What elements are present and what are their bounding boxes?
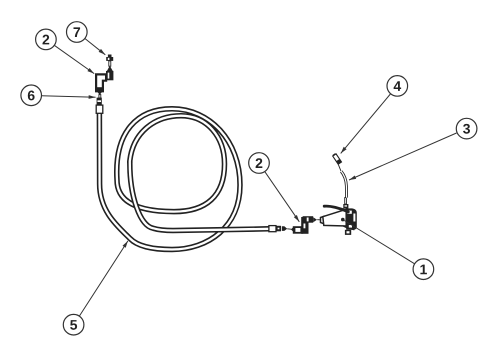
leader line to item 5	[80, 241, 128, 316]
cap (item 7)	[106, 55, 113, 61]
hose ferrule at gun end	[269, 226, 276, 232]
callout balloon 6	[21, 85, 42, 106]
blow gun bottom nub	[345, 230, 351, 235]
wire: axis line hose nut to elbow	[287, 228, 291, 230]
leader dot on gun body (item 1)	[341, 218, 345, 222]
callout balloon 3	[456, 118, 477, 139]
wire: stem below elbow	[99, 95, 101, 99]
leader line to item 2 upper	[54, 45, 94, 73]
blow gun inlet port	[321, 216, 325, 224]
wire: hose exit run to gun end (item 5 hose continues)	[130, 161, 269, 231]
leader line to item 7	[85, 39, 105, 55]
blow gun body (item 1)	[323, 208, 357, 229]
nozzle tip (item 4)	[332, 153, 341, 164]
leader line to item 3	[349, 133, 457, 180]
callout balloon 2 upper	[36, 29, 57, 50]
hose ferrule below item 6	[96, 105, 103, 113]
extension tube (item 3)	[341, 171, 346, 197]
callout balloon 2 lower	[249, 153, 270, 174]
elbow fitting (item 2, upper)	[96, 66, 113, 95]
callout balloon 5	[63, 314, 84, 335]
blow gun top fitting	[343, 204, 348, 209]
wire: axis line tube to tip	[338, 165, 341, 171]
leader line to item 4	[341, 94, 391, 153]
leader line to item 6	[42, 96, 96, 98]
callout balloon 7	[67, 22, 88, 43]
hose nut (item 6)	[97, 98, 102, 106]
wire: stem between cap and elbow	[109, 61, 111, 66]
wire: axis line elbow to gun inlet	[317, 219, 320, 221]
blow gun trigger lever	[324, 206, 348, 212]
hose nut at gun end	[276, 226, 287, 232]
leader line to item 2 lower	[265, 171, 300, 222]
wire: coiled hose main loops	[99, 109, 240, 250]
callout balloon 4	[387, 76, 408, 97]
callout balloon 1	[413, 259, 434, 280]
wire: stem tube to gun	[345, 198, 347, 204]
elbow fitting (item 2, lower right)	[291, 216, 317, 234]
leader line to item 1	[344, 221, 415, 264]
